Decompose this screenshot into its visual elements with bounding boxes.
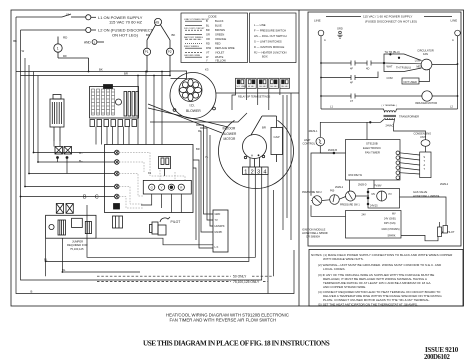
svg-text:R: R (180, 186, 183, 190)
svg-text:BR: BR (206, 28, 210, 32)
svg-text:AND COPPER STRAND WIRE.: AND COPPER STRAND WIRE. (323, 285, 366, 289)
svg-text:PLATE. CONNECT UNUSED MOTOR LE: PLATE. CONNECT UNUSED MOTOR LEADS TO THE… (323, 298, 430, 302)
svg-text:AND: AND (84, 40, 91, 44)
svg-text:WITH ORANGE WIRE NUTS.: WITH ORANGE WIRE NUTS. (323, 257, 364, 261)
svg-text:4: 4 (263, 169, 266, 175)
svg-text:BR: BR (124, 71, 128, 75)
svg-text:24VAC: 24VAC (386, 124, 394, 128)
svg-text:REPLACE WIRE: REPLACE WIRE (215, 46, 235, 50)
svg-text:50 ONLY: 50 ONLY (233, 275, 247, 279)
svg-text:L K: L K (215, 245, 219, 249)
svg-text:75,100,125 ONLY: 75,100,125 ONLY (233, 280, 260, 284)
svg-text:B C: B C (83, 195, 102, 201)
svg-text:ST9120B: ST9120B (366, 142, 378, 146)
svg-text:HUM/PK: HUM/PK (215, 224, 225, 228)
svg-text:L1: L1 (330, 105, 333, 109)
svg-text:GR: GR (206, 33, 210, 37)
svg-text:PRESSURE SW 2: PRESSURE SW 2 (302, 191, 322, 194)
svg-text:YELLOW: YELLOW (215, 58, 226, 62)
svg-text:JUMPER: JUMPER (72, 240, 83, 244)
svg-text:115 VAC 70 60 HZ: 115 VAC 70 60 HZ (109, 20, 143, 25)
svg-text:I.D.: I.D. (190, 104, 195, 108)
svg-text:LINE: LINE (451, 19, 458, 23)
svg-text:B: B (31, 289, 33, 293)
svg-text:L2: L2 (450, 105, 453, 109)
svg-text:L — LINE: L — LINE (254, 23, 266, 27)
svg-text:24V (GND): 24V (GND) (384, 217, 396, 220)
svg-text:TH TR (BLU): TH TR (BLU) (396, 66, 411, 70)
svg-text:H: H (251, 154, 253, 158)
svg-text:LOW: LOW (415, 60, 421, 63)
svg-text:MV: MV (372, 193, 376, 196)
svg-text:RJ — HEATER JUNCTION: RJ — HEATER JUNCTION (254, 51, 287, 55)
svg-text:GREEN: GREEN (215, 33, 224, 37)
svg-text:P1: P1 (145, 50, 149, 54)
svg-text:PRESSURE SW 1: PRESSURE SW 1 (340, 204, 360, 207)
svg-text:(5) SET THE HEAT ANTICIPATOR O: (5) SET THE HEAT ANTICIPATOR ON THE THER… (318, 303, 418, 307)
svg-text:NOT USED: NOT USED (237, 86, 247, 88)
svg-text:ON HOT LEG): ON HOT LEG) (112, 32, 139, 37)
svg-text:75,100,125: 75,100,125 (70, 247, 84, 251)
svg-text:USE THIS DIAGRAM IN PLACE OF F: USE THIS DIAGRAM IN PLACE OF FIG. 18 IN … (143, 340, 330, 348)
svg-text:PILOT: PILOT (447, 230, 455, 234)
svg-text:LINE: LINE (314, 19, 321, 23)
svg-text:T: T (424, 160, 426, 163)
svg-text:FAN TIMER AND WITH REVERSE AIR: FAN TIMER AND WITH REVERSE AIR FLOW SWIT… (170, 317, 277, 322)
svg-text:BROWN: BROWN (215, 28, 225, 32)
svg-text:2M29-1: 2M29-1 (309, 129, 318, 133)
svg-text:R–: R– (79, 151, 83, 155)
svg-text:GROUND WIRE: GROUND WIRE (184, 55, 201, 57)
svg-text:BLOWER: BLOWER (223, 132, 238, 136)
svg-text:BOX: BOX (262, 55, 268, 59)
svg-text:FAN: FAN (423, 52, 428, 56)
svg-text:REQUIRED FOR: REQUIRED FOR (67, 243, 88, 247)
svg-text:LOCAL CODES.: LOCAL CODES. (323, 267, 346, 271)
svg-text:200D6102: 200D6102 (424, 354, 450, 361)
svg-text:( L TERMINAL ): ( L TERMINAL ) (382, 104, 398, 107)
svg-text:60 SEC: 60 SEC (248, 86, 255, 88)
svg-text:4T: 4T (350, 99, 353, 103)
svg-text:1: 1 (57, 47, 59, 51)
svg-text:R/W: R/W (206, 46, 212, 50)
svg-text:2M29-2: 2M29-2 (440, 183, 449, 186)
svg-text:LINE V POWER CIRCUIT: LINE V POWER CIRCUIT (184, 19, 210, 21)
svg-text:GRD: GRD (215, 212, 221, 216)
svg-text:BK: BK (13, 39, 17, 43)
svg-text:BL: BL (44, 257, 48, 261)
svg-text:VIOLET: VIOLET (215, 50, 225, 54)
svg-text:ISSUE 9210: ISSUE 9210 (425, 346, 459, 354)
svg-text:R60 R62 W: R60 R62 W (349, 173, 363, 177)
svg-text:4F: 4F (350, 81, 353, 85)
svg-text:Y: Y (206, 58, 208, 62)
svg-text:3: 3 (257, 169, 260, 175)
svg-text:180 SEC: 180 SEC (281, 86, 289, 88)
svg-text:TH TR (BLU): TH TR (BLU) (385, 50, 400, 54)
svg-text:BK: BK (146, 33, 150, 37)
svg-text:1: 1 (93, 40, 95, 44)
svg-text:4F: 4F (350, 67, 353, 71)
svg-text:W: W (206, 55, 209, 59)
svg-text:2M29-B: 2M29-B (328, 148, 337, 152)
svg-text:BR: BR (262, 126, 266, 130)
svg-text:YL: YL (205, 155, 209, 159)
svg-text:GRD: GRD (337, 27, 343, 31)
svg-text:2M29-2: 2M29-2 (335, 186, 344, 189)
svg-text:140 SEC: 140 SEC (270, 86, 278, 88)
svg-text:BL: BL (206, 24, 210, 28)
svg-text:FIELD WIRING: FIELD WIRING (184, 46, 199, 48)
svg-text:DRY (IGN): DRY (IGN) (384, 222, 396, 225)
svg-text:100 SEC: 100 SEC (259, 86, 267, 88)
svg-text:GND (CHASSIS): GND (CHASSIS) (382, 228, 400, 231)
svg-text:CAP: CAP (274, 135, 280, 139)
svg-text:IGNITION MODULE: IGNITION MODULE (302, 228, 326, 232)
svg-text:F — PRESSURE SWITCH: F — PRESSURE SWITCH (254, 29, 286, 33)
svg-text:7V: 7V (215, 218, 218, 222)
svg-text:K3: K3 (205, 67, 209, 71)
svg-text:BLACK: BLACK (215, 19, 224, 23)
svg-text:BK: BK (172, 33, 176, 37)
svg-text:P2: P2 (168, 50, 172, 54)
svg-text:BLOWER: BLOWER (186, 109, 201, 113)
svg-text:BLUE: BLUE (215, 24, 222, 28)
svg-text:RED: RED (215, 42, 221, 46)
svg-text:B–: B– (79, 159, 83, 163)
svg-text:FAN TIMER: FAN TIMER (365, 151, 380, 155)
svg-text:W: W (22, 49, 25, 53)
svg-text:2: 2 (251, 169, 254, 175)
svg-text:T: T (424, 168, 426, 171)
svg-text:OR: OR (206, 37, 210, 41)
svg-text:ELECTRONIC: ELECTRONIC (363, 146, 381, 150)
svg-text:S — LIMIT SWITCHES: S — LIMIT SWITCHES (254, 40, 282, 44)
svg-text:PV: PV (389, 193, 393, 196)
svg-text:A: A (424, 164, 426, 167)
svg-text:115 VAC / 1 60 HZ POWER SUPPLY: 115 VAC / 1 60 HZ POWER SUPPLY (363, 15, 412, 19)
svg-text:MV: MV (392, 213, 396, 216)
svg-text:A: A (324, 38, 326, 42)
svg-text:FACTORY WIRING: FACTORY WIRING (184, 36, 203, 39)
svg-text:MOTOR: MOTOR (224, 137, 237, 141)
svg-text:Y: Y (161, 186, 163, 190)
svg-text:4D: 4D (366, 67, 369, 71)
svg-text:PV/MV: PV/MV (374, 184, 382, 187)
svg-text:24V CONT. CIRCUIT: 24V CONT. CIRCUIT (184, 28, 205, 30)
svg-text:M1/PK: M1/PK (215, 230, 223, 234)
svg-text:NOT USED: NOT USED (404, 80, 417, 84)
svg-text:(FUSED DISCONNECT ON HOT LEG): (FUSED DISCONNECT ON HOT LEG) (365, 19, 417, 23)
svg-text:K1: K1 (148, 171, 152, 175)
svg-text:UNIT: UNIT (420, 135, 426, 139)
svg-text:INDOOR: INDOOR (223, 127, 236, 131)
svg-text:S1: S1 (66, 13, 70, 17)
svg-text:P60: P60 (330, 190, 335, 193)
svg-text:VT: VT (206, 50, 210, 54)
svg-text:RD: RD (206, 42, 210, 46)
svg-text:HONEYWELL VR8204: HONEYWELL VR8204 (413, 194, 440, 198)
svg-text:ORANGE: ORANGE (215, 37, 227, 41)
svg-text:RD: RD (63, 36, 68, 40)
svg-text:HS — ROLL OUT SWITCH: HS — ROLL OUT SWITCH (254, 34, 287, 38)
svg-text:BK: BK (99, 67, 103, 71)
svg-text:BR: BR (196, 147, 200, 151)
svg-text:SPARK: SPARK (388, 234, 396, 237)
svg-text:4G: 4G (155, 20, 160, 24)
svg-text:HONEYWELL S8600F: HONEYWELL S8600F (302, 231, 328, 235)
svg-text:2M29-D: 2M29-D (358, 184, 367, 187)
svg-text:24V: 24V (362, 214, 367, 217)
svg-text:G: G (151, 186, 154, 190)
svg-text:TRANSFORMER: TRANSFORMER (399, 114, 419, 118)
svg-text:1: 1 (244, 169, 247, 175)
svg-text:D — IGNITION MODULE: D — IGNITION MODULE (254, 45, 285, 49)
svg-text:WHITE: WHITE (215, 55, 224, 59)
svg-text:COM: COM (387, 76, 393, 80)
svg-text:A: A (452, 38, 454, 42)
svg-text:OR S8600H: OR S8600H (306, 235, 320, 239)
svg-text:PILOT: PILOT (171, 220, 181, 224)
svg-text:DF: DF (63, 54, 67, 58)
svg-text:WHT: WHT (387, 65, 393, 69)
svg-text:GAS VALVE: GAS VALVE (413, 190, 427, 194)
svg-text:24V/25: 24V/25 (370, 205, 378, 208)
svg-text:LIMIT: LIMIT (304, 138, 311, 142)
svg-text:INDUCER MOTOR: INDUCER MOTOR (415, 101, 437, 105)
svg-text:CODE: CODE (208, 14, 217, 18)
svg-text:CONTROL: CONTROL (303, 142, 316, 146)
svg-text:S: S (424, 156, 426, 159)
svg-text:RELAY DIP TERM SETTINGS: RELAY DIP TERM SETTINGS (238, 96, 271, 99)
svg-text:MED: MED (417, 66, 423, 69)
svg-text:BL: BL (62, 268, 66, 272)
